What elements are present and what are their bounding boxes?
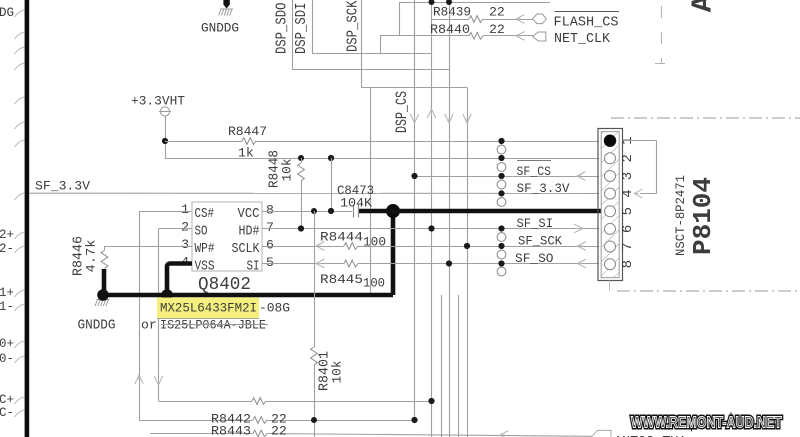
- wire DSP_CS vertical: [414, 0, 416, 420]
- resistor R8447 1k: [165, 141, 242, 143]
- svg-text:P8104: P8104: [688, 177, 718, 255]
- svg-text:104K: 104K: [340, 196, 372, 211]
- junction V2 to SF_SI: [428, 225, 434, 231]
- junction R8448 to HD#: [298, 225, 304, 231]
- wire DSP_SDO: [292, 0, 294, 69]
- svg-text:10k: 10k: [280, 158, 295, 181]
- junction V4 to SF_SCK: [464, 243, 470, 249]
- svg-text:2: 2: [620, 154, 636, 162]
- wire top rail y2: [399, 2, 550, 4]
- svg-text:GNDDG: GNDDG: [201, 21, 239, 36]
- junction V2 wire A: [428, 398, 434, 404]
- junction at power node: [162, 138, 168, 144]
- svg-text:FLASH_CS: FLASH_CS: [554, 16, 619, 31]
- wire SF_3.3V rail: [29, 192, 599, 194]
- wire vertical V2: [431, 2, 433, 437]
- svg-text:4: 4: [620, 189, 636, 197]
- svg-text:6: 6: [266, 238, 274, 253]
- svg-text:DSP_SDI: DSP_SDI: [294, 3, 310, 55]
- left connector pin stubs: [15, 10, 25, 417]
- svg-text:7: 7: [266, 220, 274, 235]
- resistor R8443 22: [150, 433, 253, 435]
- thick wire to connector pin5: [359, 209, 601, 214]
- wire drop x331 to VCC rail: [331, 158, 333, 211]
- wire HD# SF_SI: [262, 228, 599, 230]
- left connector body edge bar: [25, 0, 30, 437]
- svg-text:WP#: WP#: [195, 242, 215, 257]
- svg-text:5: 5: [266, 255, 274, 270]
- svg-text:2+: 2+: [0, 228, 14, 242]
- svg-text:DSP_SCK: DSP_SCK: [346, 0, 362, 52]
- resistor R8442 22: [139, 420, 253, 422]
- resistor R8448 10k: [301, 158, 303, 163]
- arrows on CS#/SO routes: [135, 375, 143, 384]
- svg-text:100: 100: [363, 235, 386, 250]
- direction arrows on DSP wires: [410, 114, 418, 123]
- connector bottom stub: [609, 281, 611, 292]
- svg-text:10k: 10k: [330, 360, 345, 383]
- svg-text:or: or: [141, 317, 157, 332]
- strike lines on part labels: [157, 318, 259, 320]
- svg-text:SF_CS: SF_CS: [517, 164, 552, 179]
- wire loop pin1 to pin4: [623, 140, 657, 142]
- svg-text:R8447: R8447: [228, 124, 267, 139]
- svg-text:8: 8: [266, 203, 274, 218]
- svg-text:0-: 0-: [0, 352, 14, 366]
- svg-text:2-: 2-: [0, 242, 14, 256]
- arrow SF_SCK: [578, 242, 587, 251]
- junction dots column x501.5: [498, 138, 504, 144]
- svg-text:WWW.REMONT-AUD.NET: WWW.REMONT-AUD.NET: [631, 414, 782, 432]
- arrow on R8439 wire: [516, 15, 525, 24]
- svg-text:22: 22: [489, 22, 505, 37]
- resistor R8445 100: [262, 263, 344, 265]
- svg-text:R8439: R8439: [433, 5, 471, 20]
- flag bottom tag: [592, 430, 611, 436]
- resistor R8401 10k riser: [314, 211, 316, 347]
- ground GNDDG at R8446: [95, 300, 110, 307]
- svg-text:6: 6: [620, 225, 636, 233]
- ground GNDDG top: [219, 9, 234, 16]
- net label FLASH_CS: [555, 11, 620, 13]
- svg-text:HD#: HD#: [239, 225, 260, 240]
- svg-text:SF_3.3V: SF_3.3V: [517, 181, 570, 196]
- svg-text:+3.3VHT: +3.3VHT: [131, 93, 185, 108]
- wire vertical V3: [449, 2, 451, 437]
- wire WP# pin3: [105, 246, 193, 248]
- resistor R8444 100: [262, 246, 344, 248]
- highlight MX25L6433FM2I: [157, 298, 259, 319]
- svg-text:3: 3: [181, 237, 189, 252]
- svg-text:DSP_CS: DSP_CS: [393, 91, 411, 133]
- svg-text:C+: C+: [0, 393, 14, 407]
- thick ground rail y295: [101, 293, 394, 298]
- svg-text:1-: 1-: [0, 300, 14, 314]
- test point circles column x501.5: [497, 145, 506, 154]
- capacitor C8473 104K: [353, 205, 355, 218]
- wire vertical V4: [467, 88, 469, 437]
- svg-text:8: 8: [620, 260, 636, 268]
- svg-text:NSCT-8P2471: NSCT-8P2471: [674, 175, 688, 256]
- wire vertical x370: [370, 88, 372, 294]
- svg-text:MX25L6433FM2I: MX25L6433FM2I: [160, 301, 257, 316]
- svg-text:R8443: R8443: [211, 424, 251, 437]
- wire vertical x458: [458, 295, 460, 437]
- thick junction dots: [97, 289, 109, 301]
- svg-text:NET_CLK: NET_CLK: [554, 32, 611, 47]
- connector pin circles: [604, 135, 616, 147]
- svg-text:R8445: R8445: [320, 272, 363, 287]
- svg-text:1+: 1+: [0, 286, 14, 300]
- wire DSP_SDI: [312, 0, 314, 54]
- svg-text:4.7k: 4.7k: [84, 239, 99, 272]
- svg-text:C-: C-: [0, 406, 14, 420]
- flag FLASH_CS hexagon: [533, 14, 547, 24]
- svg-text:SF_SCK: SF_SCK: [518, 234, 562, 249]
- svg-text:3: 3: [620, 172, 636, 180]
- wire rail y158 to pin2: [165, 158, 599, 160]
- resistor R8439 22: [432, 19, 470, 21]
- big junction dot: [386, 204, 400, 218]
- svg-text:GNDDG: GNDDG: [78, 319, 116, 334]
- junction V3 to SF_SO: [446, 260, 452, 266]
- wire A from SO: [159, 401, 253, 403]
- op IC Q8402 body: [192, 202, 262, 271]
- svg-text:22: 22: [271, 424, 287, 437]
- wire DSP_SCK: [361, 0, 363, 88]
- junction dots on y158: [298, 155, 304, 161]
- svg-text:1: 1: [181, 202, 189, 217]
- svg-text:SI: SI: [247, 260, 260, 275]
- svg-text:100: 100: [363, 276, 385, 291]
- resistor R8446 4.7k: [101, 251, 108, 269]
- thick stub to top ground: [223, 0, 229, 9]
- watermark: [631, 414, 782, 432]
- svg-text:DG: DG: [0, 6, 14, 20]
- arrow SF_CS: [577, 172, 586, 181]
- arrow on R8444 wire: [316, 242, 325, 251]
- svg-text:7: 7: [620, 242, 636, 250]
- arrow SF_SO: [578, 259, 587, 268]
- svg-text:SCLK: SCLK: [232, 242, 261, 257]
- svg-text:VSS: VSS: [195, 260, 215, 275]
- thick wire VSS pin4: [167, 264, 192, 295]
- wire corner x399: [399, 2, 401, 36]
- svg-text:A: A: [687, 0, 720, 12]
- sheet dash-dot border top: [611, 117, 800, 119]
- svg-text:Q8402: Q8402: [198, 275, 251, 295]
- arrow on R8443 wire: [500, 431, 509, 437]
- svg-text:SF_SI: SF_SI: [517, 216, 554, 231]
- junction dots top rail: [429, 0, 435, 5]
- wire SO pin2 route: [159, 228, 193, 230]
- arrow on R8440 wire: [516, 31, 525, 40]
- thick riser x393: [391, 211, 396, 295]
- svg-text:SF_SO: SF_SO: [515, 251, 554, 266]
- thick segment R8446 to ground rail: [102, 269, 107, 295]
- svg-text:SO: SO: [195, 225, 208, 240]
- svg-text:2: 2: [181, 220, 189, 235]
- svg-text:22: 22: [489, 5, 505, 20]
- wire VCC pin8: [262, 211, 352, 213]
- wire vertical x441: [441, 295, 443, 437]
- junction dots on VCC wire: [311, 208, 317, 214]
- wire CS# pin1 route: [139, 211, 192, 213]
- net label SF_CS: [517, 160, 551, 162]
- svg-text:5: 5: [620, 207, 636, 215]
- svg-text:R8440: R8440: [430, 22, 470, 37]
- resistor R8440 22: [380, 35, 469, 37]
- junction DSP_CS to SF_CS: [411, 173, 417, 179]
- arrow on R8445 wire: [316, 259, 325, 268]
- svg-text:R8444: R8444: [320, 230, 363, 245]
- svg-text:CS#: CS#: [195, 207, 215, 222]
- flag NET_CLK tag: [533, 32, 546, 41]
- junction dots wire B: [311, 417, 317, 423]
- svg-text:DSP_SDO: DSP_SDO: [275, 3, 291, 55]
- svg-text:-08G: -08G: [259, 301, 290, 316]
- svg-text:VCC: VCC: [238, 207, 260, 222]
- svg-text:SF_3.3V: SF_3.3V: [35, 179, 90, 194]
- svg-text:0+: 0+: [0, 337, 14, 351]
- connector P8104 body: [598, 129, 623, 281]
- dashed zone line top: [661, 0, 663, 64]
- arrow SF_SI: [574, 224, 583, 233]
- arrow on loop: [634, 189, 643, 198]
- sheet dash-dot border bottom: [617, 290, 800, 292]
- wire SF_CS: [415, 176, 600, 178]
